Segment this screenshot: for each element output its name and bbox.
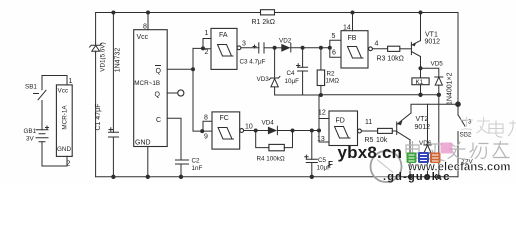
- svg-text:10: 10: [245, 124, 253, 131]
- svg-text:6: 6: [332, 50, 336, 57]
- gate FB: [341, 31, 368, 68]
- wire Q output open terminal: [167, 92, 177, 94]
- resistor R1: [261, 10, 275, 15]
- svg-text:C: C: [156, 117, 161, 124]
- switch SB2: [458, 115, 474, 177]
- svg-text:GND: GND: [135, 140, 151, 147]
- svg-text:GND: GND: [57, 146, 71, 153]
- wire MCR-1B pin8: [147, 13, 149, 30]
- FA output bubble: [237, 46, 241, 50]
- svg-text:12: 12: [318, 110, 326, 117]
- resistor R3: [388, 46, 400, 51]
- svg-text:1: 1: [69, 78, 73, 85]
- svg-text:MCR-1A: MCR-1A: [62, 105, 69, 130]
- watermark partial glyphs upper right: [460, 117, 516, 138]
- node top rail / C1: [111, 11, 115, 15]
- node VT1 collector: [419, 66, 423, 70]
- svg-text:FD: FD: [336, 118, 345, 125]
- svg-text:5: 5: [332, 33, 336, 40]
- svg-text:13: 13: [317, 136, 325, 143]
- gate FA: [211, 28, 237, 69]
- wire left vertical (VD1 branch): [95, 13, 97, 177]
- FC output bubble: [240, 129, 244, 133]
- svg-text:10μF: 10μF: [285, 78, 300, 85]
- svg-text:VD2: VD2: [279, 38, 292, 45]
- FB output bubble: [369, 47, 373, 51]
- wire FC pin8/9 tie: [202, 121, 212, 131]
- wire VD5 node to bottom rail: [438, 95, 440, 177]
- svg-text:Q: Q: [156, 68, 162, 75]
- wire R5 to VT2 base: [392, 130, 396, 132]
- relay K1: [412, 68, 429, 95]
- gate FD: [329, 111, 358, 146]
- switch SB1: [25, 84, 46, 126]
- wire FD out to R5: [361, 130, 377, 132]
- capacitor C2: [176, 158, 203, 177]
- node R2 bottom / FD feed: [319, 93, 323, 97]
- wire right vertical from top rail: [457, 13, 459, 115]
- svg-text:ybx8.cn: ybx8.cn: [338, 143, 403, 162]
- svg-text:VT2: VT2: [416, 116, 429, 123]
- wire bottom rail: [96, 176, 458, 178]
- svg-text:8: 8: [204, 115, 208, 122]
- wire C1 vertical: [112, 13, 114, 177]
- svg-text:VD1(5.6V): VD1(5.6V): [100, 42, 107, 71]
- resistor R4: [256, 129, 295, 163]
- wire FA out to C3: [241, 47, 259, 49]
- capacitor C3: [240, 43, 275, 66]
- svg-text:Vcc: Vcc: [58, 88, 69, 95]
- wire FC out: [244, 130, 256, 132]
- svg-text:FB: FB: [348, 35, 357, 42]
- wire FD input tie: [319, 95, 329, 142]
- svg-text:MCR~1B: MCR~1B: [134, 80, 160, 87]
- watermark colored logo blocks: [407, 143, 453, 164]
- node C5 tap: [310, 129, 314, 133]
- svg-text:VD4: VD4: [262, 120, 275, 127]
- svg-text:1N4001×2: 1N4001×2: [447, 72, 454, 105]
- svg-text:9012: 9012: [425, 39, 441, 46]
- transistor VT2 9012: [397, 104, 458, 177]
- capacitor C5: [305, 131, 331, 177]
- svg-text:FA: FA: [219, 32, 228, 39]
- battery GB1 3V: [24, 126, 68, 167]
- wire MCR-1A pin1 to SB1: [42, 76, 67, 90]
- svg-text:1N4732: 1N4732: [115, 48, 122, 73]
- svg-text:SB2: SB2: [460, 132, 472, 139]
- svg-text:11: 11: [365, 119, 372, 126]
- wire top rail left segment: [96, 12, 261, 14]
- svg-text:F: F: [328, 160, 333, 169]
- capacitor C4: [285, 46, 308, 95]
- node top rail / MCR-1B pin 8: [146, 11, 150, 15]
- capacitor C1: [95, 104, 119, 138]
- gate FC: [212, 112, 240, 149]
- wire Q-bar node vertical: [193, 48, 202, 131]
- svg-text:R3 10kΩ: R3 10kΩ: [377, 56, 404, 63]
- svg-text:2: 2: [67, 161, 71, 168]
- diode VD6: [419, 104, 432, 177]
- svg-text:9: 9: [204, 134, 208, 141]
- svg-text:.gd-guok.c: .gd-guok.c: [383, 171, 451, 183]
- IC U1 MCR-1A transmitter section: [56, 85, 72, 156]
- svg-text:R1 2kΩ: R1 2kΩ: [252, 19, 276, 26]
- svg-text:GB1: GB1: [24, 128, 37, 135]
- node SB2 top / VT2 emitter wire: [455, 101, 461, 107]
- FD output bubble: [358, 129, 362, 133]
- wire FB input tie: [330, 40, 341, 57]
- zener diode VD3: [257, 48, 321, 95]
- wire R3 to VT1 base: [400, 48, 412, 50]
- svg-text:R2: R2: [327, 71, 336, 78]
- resistor R2: [317, 46, 339, 95]
- diode VD4: [256, 120, 312, 135]
- transistor VT1 9012: [411, 13, 440, 69]
- node top rail / FB pin14: [351, 11, 355, 15]
- watermark outlined CJK glyphs row: [406, 142, 509, 161]
- svg-text:VD5: VD5: [431, 61, 444, 68]
- resistor R5: [378, 128, 393, 133]
- node C3/VD2/VD3: [273, 46, 277, 50]
- wire Q-bar output to node: [167, 68, 193, 70]
- svg-text:C2: C2: [192, 158, 201, 165]
- svg-text:2: 2: [205, 49, 209, 56]
- svg-text:C1 47μF: C1 47μF: [95, 104, 102, 131]
- svg-text:C5: C5: [318, 157, 327, 164]
- svg-text:4: 4: [375, 41, 379, 48]
- svg-text:1: 1: [205, 30, 209, 37]
- svg-text:Vcc: Vcc: [137, 34, 149, 41]
- zener diode VD1: [90, 42, 122, 72]
- diode VD5: [421, 61, 454, 106]
- wire middle bottom to K1 area: [321, 94, 439, 96]
- wire MCR-1B GND to rail: [147, 147, 149, 177]
- watermark ybx8.cn: [328, 143, 402, 169]
- wire FA input tie: [193, 39, 211, 49]
- IC U2 MCR-1B: [134, 30, 168, 147]
- svg-text:FC: FC: [220, 115, 229, 122]
- svg-text:1nF: 1nF: [192, 165, 203, 172]
- svg-text:C3 4.7μF: C3 4.7μF: [240, 59, 266, 66]
- svg-text:1MΩ: 1MΩ: [326, 78, 340, 85]
- svg-text:3: 3: [242, 41, 246, 48]
- svg-text:VD3: VD3: [257, 76, 270, 83]
- node C1 bottom rail: [111, 175, 115, 179]
- svg-text:Q: Q: [155, 92, 161, 99]
- wire C input to C2: [167, 118, 181, 160]
- node C2 bottom rail: [179, 175, 183, 179]
- svg-text:3V: 3V: [26, 136, 35, 143]
- svg-text:C4: C4: [287, 70, 296, 77]
- wire top rail right segment: [275, 12, 459, 14]
- svg-text:K1: K1: [416, 79, 424, 86]
- diode VD2: [275, 38, 330, 53]
- svg-text:VT1: VT1: [425, 32, 438, 39]
- svg-text:SB1: SB1: [25, 84, 37, 91]
- wire MCR-1A pin2: [66, 156, 68, 166]
- wire FB out to R3: [372, 48, 387, 50]
- svg-text:R4 100kΩ: R4 100kΩ: [257, 156, 285, 163]
- watermark orbit ball: [371, 151, 402, 182]
